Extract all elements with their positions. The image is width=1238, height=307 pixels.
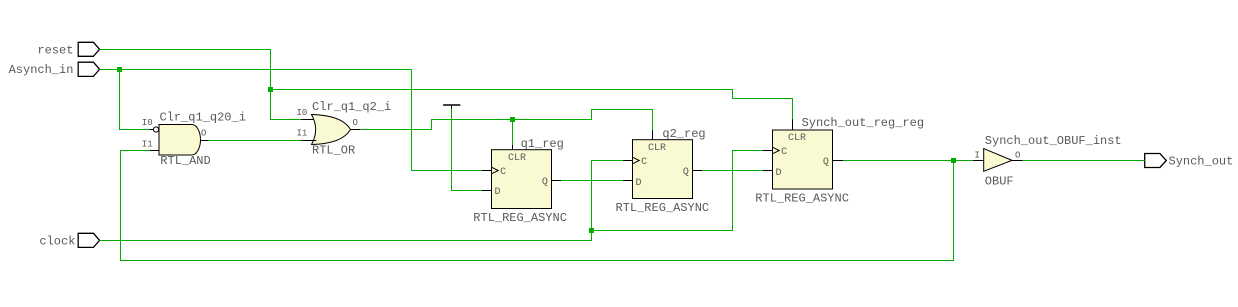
svg-text:D: D [495,187,501,198]
wire feedback from OBUF junction down and left to AND I1 [121,151,954,261]
or-gate RTL_OR Clr_q1_q2_i [297,100,392,158]
wire clock to q2_reg C [592,161,623,231]
svg-text:Q: Q [542,177,548,188]
svg-text:RTL_REG_ASYNC: RTL_REG_ASYNC [473,211,567,225]
pin stub q2_reg D [623,180,633,182]
svg-text:Clr_q1_q2_i: Clr_q1_q2_i [312,100,391,114]
wire q1_reg Q to q2_reg D [561,180,623,182]
svg-text:CLR: CLR [648,143,666,154]
and-gate RTL_AND Clr_q1_q20_i [142,111,246,168]
wire Asynch_in vertical to q1_reg C [412,70,482,171]
wire reset net from port [99,50,270,90]
svg-text:I1: I1 [297,129,308,139]
svg-text:Synch_out: Synch_out [1169,155,1234,169]
node junction clock net [589,228,594,233]
svg-text:RTL_OR: RTL_OR [312,144,355,158]
svg-text:q1_reg: q1_reg [521,137,564,151]
pin stub q2_reg Q [693,170,703,172]
svg-text:Clr_q1_q20_i: Clr_q1_q20_i [160,111,246,125]
svg-text:I: I [975,151,980,161]
pin stub q1_reg Q [552,180,562,182]
svg-text:CLR: CLR [508,153,526,164]
svg-text:RTL_REG_ASYNC: RTL_REG_ASYNC [755,192,849,206]
wire constant to q1_reg D [452,109,482,191]
flip-flop q2_reg RTL_REG_ASYNC [616,127,710,215]
wire clock branch to Synch_out_reg_reg C [592,151,763,231]
pin stub Synch_out_reg_reg CLR [792,119,794,130]
svg-text:OBUF: OBUF [985,175,1014,189]
svg-text:D: D [776,168,782,179]
wire OR output net [360,110,653,131]
svg-text:Synch_out_reg_reg: Synch_out_reg_reg [802,116,924,130]
pin stub OBUF input [973,160,984,162]
svg-text:CLR: CLR [788,133,806,144]
pin stub q2_reg C [623,160,633,162]
svg-text:Q: Q [683,167,689,178]
wire OBUF output to Synch_out port [1023,160,1145,162]
pin stub q1_reg CLR [512,145,514,150]
svg-text:Q: Q [823,157,829,168]
wire reset net branch to OR I0 [271,90,302,120]
flip-flop Synch_out_reg_reg RTL_REG_ASYNC [755,116,924,206]
svg-text:O: O [353,118,358,128]
wire OR output branch to q1 CLR [512,120,514,145]
node junction reset net [268,87,273,92]
wire q2_reg Q to Synch_out_reg_reg D [702,170,763,172]
wire reset net long horizontal to Synch_out_reg_reg CLR [271,90,793,120]
flip-flop q1_reg RTL_REG_ASYNC [473,137,567,225]
svg-text:D: D [636,178,642,189]
svg-text:I1: I1 [142,140,153,150]
pin stub OR output [351,129,361,131]
pin stub q1_reg D [482,190,492,192]
svg-text:Synch_out_OBUF_inst: Synch_out_OBUF_inst [985,134,1122,148]
pin stub AND I1 [150,150,159,152]
wire Asynch_in net horizontal [99,69,411,71]
clock edge marker Synch_out_reg_reg C [773,147,780,154]
svg-text:RTL_AND: RTL_AND [160,154,210,168]
buffer OBUF Synch_out_OBUF_inst [975,134,1122,189]
clock edge marker q1_reg C [492,167,499,174]
node junction OR output net to q1 CLR [510,117,515,122]
port clock [39,233,99,248]
svg-text:reset: reset [37,43,73,57]
svg-text:I0: I0 [297,108,308,118]
node junction Asynch_in net [117,67,122,72]
svg-text:Asynch_in: Asynch_in [9,63,74,77]
svg-text:O: O [1015,151,1020,161]
svg-text:I0: I0 [142,118,153,128]
port Asynch_in [9,62,100,77]
pin stub Synch_out_reg_reg D [763,170,773,172]
wire Asynch_in branch down to AND I0 [120,70,150,130]
inverter bubble AND I0 [153,127,158,132]
svg-text:RTL_REG_ASYNC: RTL_REG_ASYNC [616,201,710,215]
wire clock net horizontal [99,231,591,241]
port reset [37,42,99,57]
svg-text:q2_reg: q2_reg [662,127,705,141]
pin stub Synch_out_reg_reg C [763,150,773,152]
pin stub q2_reg CLR [652,130,654,140]
wire Synch_out_reg_reg Q to OBUF [843,160,973,162]
pin stub AND output [201,140,209,142]
clock edge marker q2_reg C [633,157,640,164]
wire AND output to OR I1 [209,140,301,142]
pin stub Synch_out_reg_reg Q [833,160,844,162]
node junction OBUF input net [951,158,956,163]
svg-text:C: C [781,147,787,158]
svg-text:O: O [201,129,206,139]
svg-text:C: C [500,167,506,178]
constant source T symbol [443,105,460,109]
svg-text:C: C [641,157,647,168]
svg-text:clock: clock [39,235,75,249]
port Synch_out [1145,154,1234,169]
pin stub q1_reg C [482,170,492,172]
pin stub OBUF output [1012,160,1023,162]
